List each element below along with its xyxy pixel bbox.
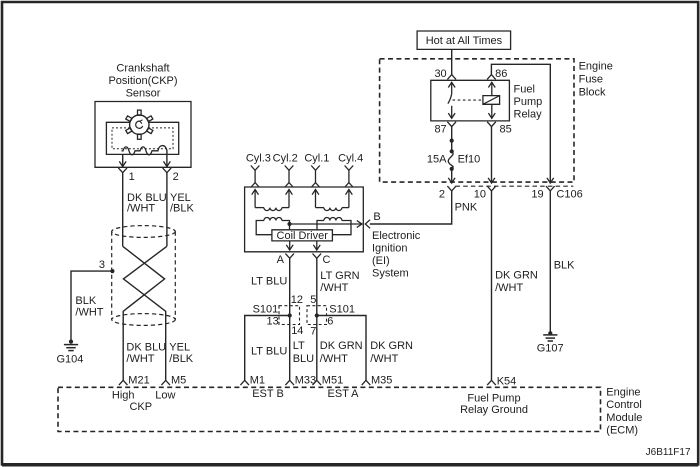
label YEL/BLK lower	[169, 341, 194, 365]
wire 86 loop	[491, 64, 553, 183]
svg-text:Cyl.1: Cyl.1	[304, 152, 329, 164]
svg-text:5: 5	[310, 294, 316, 306]
svg-text:Coil Driver: Coil Driver	[277, 230, 329, 242]
wire fuse to C106	[448, 169, 455, 183]
CKP sensor outer box	[95, 102, 191, 168]
wire hot to pin 30	[451, 49, 453, 74]
svg-text:/WHT: /WHT	[495, 282, 523, 294]
terminal 3 drain wire	[71, 259, 112, 342]
svg-text:Module: Module	[606, 412, 642, 424]
label Electronic Ignition (EI) System	[372, 230, 421, 280]
node S101 splice C	[315, 313, 319, 317]
shield cylinder bottom ellipse	[112, 314, 176, 326]
ground G107	[537, 331, 564, 355]
svg-text:2: 2	[173, 171, 179, 183]
svg-text:M21: M21	[128, 375, 149, 387]
svg-text:2: 2	[439, 188, 445, 200]
svg-text:/WHT: /WHT	[320, 353, 348, 365]
relay coil link	[453, 99, 483, 101]
svg-text:3: 3	[99, 259, 105, 271]
Engine Fuse Block box	[380, 59, 574, 182]
relay terminal 30	[434, 68, 456, 80]
secondary arrow at x=348.9	[346, 190, 353, 208]
svg-text:(ECM): (ECM)	[606, 424, 638, 436]
relay coil	[483, 82, 500, 118]
svg-text:/WHT: /WHT	[126, 353, 154, 365]
svg-text:Engine: Engine	[606, 387, 640, 399]
svg-text:High: High	[112, 389, 135, 401]
svg-text:PNK: PNK	[455, 202, 478, 214]
svg-text:15A: 15A	[427, 154, 447, 166]
svg-text:System: System	[372, 267, 409, 279]
wire LT BLU (A)	[289, 258, 291, 380]
wire to B arrow	[290, 221, 363, 228]
label DK BLU/WHT lower	[126, 341, 166, 365]
svg-text:BLK: BLK	[75, 295, 96, 307]
svg-text:Relay: Relay	[514, 108, 543, 120]
twisted pair wire B	[123, 246, 166, 380]
node primary junction	[287, 222, 291, 230]
label Engine Fuse Block	[579, 61, 613, 99]
svg-text:13: 13	[267, 316, 279, 328]
svg-text:10: 10	[474, 189, 486, 201]
wire S101 to M35	[317, 316, 366, 381]
label Cyl.1	[304, 152, 329, 164]
wire PNK	[370, 191, 452, 224]
label CKP	[129, 401, 152, 413]
relay terminal 87	[434, 122, 456, 136]
svg-text:/BLK: /BLK	[170, 203, 195, 215]
wire YEL/BLK (CKP 2)	[166, 173, 168, 247]
pin 14	[291, 325, 303, 337]
terminal 19 C106	[531, 186, 582, 200]
pin 12	[291, 294, 303, 306]
label LT BLU	[251, 275, 287, 287]
svg-text:DK GRN: DK GRN	[370, 340, 413, 352]
svg-text:Fuel Pump: Fuel Pump	[467, 392, 520, 404]
svg-text:Sensor: Sensor	[126, 87, 161, 99]
ground G104	[57, 340, 84, 366]
pin 6	[327, 316, 333, 328]
label Crankshaft Position (CKP) Sensor	[108, 62, 177, 99]
label Fuel Pump Relay	[514, 84, 543, 121]
node splice to shield	[110, 269, 114, 273]
label S101 left	[253, 304, 279, 316]
svg-text:86: 86	[495, 68, 507, 80]
svg-text:/WHT: /WHT	[370, 353, 398, 365]
svg-text:Hot at All Times: Hot at All Times	[426, 35, 503, 47]
svg-text:/BLK: /BLK	[169, 353, 194, 365]
terminal A	[277, 254, 294, 266]
terminal M33	[285, 375, 316, 387]
svg-text:A: A	[277, 254, 285, 266]
svg-text:Crankshaft: Crankshaft	[116, 62, 169, 74]
svg-text:EST B: EST B	[252, 388, 284, 400]
svg-text:G104: G104	[57, 353, 84, 365]
splice S101 right box	[307, 306, 327, 325]
svg-text:30: 30	[434, 68, 446, 80]
label DK GRN/WHT (M35)	[370, 340, 413, 365]
svg-text:Cyl.3: Cyl.3	[246, 152, 271, 164]
svg-text:14: 14	[291, 325, 303, 337]
svg-text:CKP: CKP	[129, 401, 152, 413]
svg-text:C: C	[323, 254, 331, 266]
Coil Driver box	[272, 230, 333, 242]
rotation arrow inside gear	[136, 120, 143, 129]
EI pin C arrow	[313, 241, 320, 250]
CKP reluctor wheel (gear)	[126, 110, 153, 139]
svg-text:BLK: BLK	[554, 260, 575, 272]
ignition coil 1 primary	[256, 218, 289, 235]
wire DK BLU/WHT (CKP 1)	[122, 173, 124, 247]
CKP pin 1 arrow	[119, 154, 126, 166]
svg-text:Control: Control	[606, 399, 641, 411]
Cyl terminal at x=255.1	[251, 166, 260, 188]
svg-text:/WHT: /WHT	[75, 307, 103, 319]
svg-text:19: 19	[531, 188, 543, 200]
wire DK GRN/WHT (relay ground)	[491, 191, 493, 380]
svg-text:G107: G107	[537, 343, 564, 355]
label Fuel Pump Relay Ground	[460, 392, 528, 416]
svg-text:/WHT: /WHT	[127, 203, 155, 215]
CKP pickup coil	[122, 146, 167, 155]
svg-text:Low: Low	[155, 389, 175, 401]
fuse Ef10 15A	[427, 149, 480, 171]
svg-text:BLU: BLU	[293, 353, 314, 365]
svg-text:M35: M35	[371, 375, 392, 387]
connector C106 dashed line	[456, 185, 574, 187]
terminal 1	[118, 168, 134, 183]
terminal M21	[119, 375, 150, 387]
twisted pair wire A	[123, 246, 165, 380]
svg-text:Cyl.2: Cyl.2	[273, 152, 298, 164]
ignition coil 1 secondary	[255, 208, 289, 211]
CKP sensor inner box	[106, 122, 178, 154]
svg-text:7: 7	[310, 326, 316, 338]
svg-text:J6B11F17: J6B11F17	[646, 447, 691, 458]
pin 13	[267, 316, 279, 328]
svg-text:Pump: Pump	[514, 96, 543, 108]
label High	[112, 389, 135, 401]
Cyl terminal at x=348.9	[345, 166, 354, 188]
svg-text:M5: M5	[171, 375, 186, 387]
svg-text:(EI): (EI)	[372, 255, 390, 267]
svg-text:K54: K54	[497, 376, 517, 388]
svg-text:M1: M1	[250, 375, 265, 387]
relay terminal 85	[487, 122, 512, 136]
relay terminal 86	[487, 68, 507, 80]
Engine Control Module box	[58, 387, 601, 431]
svg-text:YEL: YEL	[169, 341, 190, 353]
node S101 splice A	[288, 313, 292, 317]
svg-text:DK BLU: DK BLU	[126, 341, 166, 353]
label EST B	[252, 388, 284, 400]
CKP sensor dotted box	[112, 128, 173, 149]
svg-text:1: 1	[129, 171, 135, 183]
ignition coil 2 secondary	[316, 208, 349, 211]
label LT BLU (M33)	[293, 340, 314, 365]
svg-text:LT BLU: LT BLU	[251, 346, 287, 358]
svg-text:Electronic: Electronic	[372, 230, 421, 242]
label PNK	[455, 202, 478, 214]
svg-text:B: B	[373, 211, 380, 223]
svg-text:Ef10: Ef10	[458, 154, 481, 166]
svg-text:C106: C106	[556, 188, 582, 200]
ignition coil 2 primary	[317, 218, 351, 235]
svg-text:S101: S101	[253, 304, 279, 316]
label S101 right	[329, 304, 355, 316]
label Cyl.3	[246, 152, 271, 164]
Cyl terminal at x=315.5	[311, 166, 320, 188]
wire 85 to C106	[488, 127, 495, 183]
wire BLK	[549, 191, 551, 333]
Cyl terminal at x=289.0	[285, 166, 294, 188]
svg-text:Engine: Engine	[579, 61, 613, 73]
terminal B	[365, 211, 380, 228]
wire LT GRN/WHT (C)	[316, 258, 318, 380]
svg-text:/WHT: /WHT	[320, 282, 348, 294]
terminal C	[313, 254, 331, 266]
label Cyl.2	[273, 152, 298, 164]
label DK BLU/WHT	[127, 192, 167, 214]
label YEL/BLK	[170, 192, 195, 214]
terminal 2 C106	[439, 186, 456, 200]
svg-text:6: 6	[327, 316, 333, 328]
svg-text:Fuel: Fuel	[514, 84, 535, 96]
terminal 10 C106	[474, 186, 496, 200]
label LT GRN/WHT	[320, 270, 359, 294]
svg-text:Cyl.4: Cyl.4	[338, 152, 363, 164]
secondary arrow at x=289.0	[286, 190, 293, 208]
svg-text:DK GRN: DK GRN	[320, 340, 363, 352]
label LT BLU (M1)	[251, 346, 287, 358]
label BLK	[554, 260, 575, 272]
label DK GRN/WHT (M51)	[320, 340, 363, 365]
label BLK/WHT	[75, 295, 103, 319]
svg-text:Ignition: Ignition	[372, 242, 407, 254]
label EST A	[328, 388, 360, 400]
node fuse top	[450, 139, 454, 143]
terminal M51	[313, 375, 344, 387]
label Cyl.4	[338, 152, 363, 164]
relay switch contact	[448, 82, 455, 118]
label DK GRN/WHT right	[495, 269, 538, 294]
svg-text:EST A: EST A	[328, 388, 360, 400]
svg-text:Fuse: Fuse	[579, 74, 603, 86]
terminal M5	[161, 375, 186, 387]
terminal K54	[487, 376, 516, 388]
Hot at All Times box	[417, 31, 511, 49]
secondary arrow at x=255.1	[252, 190, 259, 208]
svg-text:Position(CKP): Position(CKP)	[108, 75, 177, 87]
shield cylinder sides	[112, 232, 176, 320]
terminal 2	[163, 168, 179, 183]
label Engine Control Module (ECM)	[606, 387, 642, 437]
label J6B11F17	[646, 447, 691, 458]
splice S101 left box	[279, 306, 300, 325]
svg-text:LT: LT	[293, 340, 305, 352]
svg-text:Relay Ground: Relay Ground	[460, 404, 528, 416]
svg-text:DK GRN: DK GRN	[495, 269, 538, 281]
svg-text:12: 12	[291, 294, 303, 306]
terminal M35	[362, 375, 393, 387]
wire 87 to fuse	[451, 127, 453, 152]
secondary arrow at x=315.5	[312, 190, 319, 208]
svg-text:85: 85	[500, 123, 512, 135]
pin 7	[310, 326, 316, 338]
svg-text:87: 87	[434, 123, 446, 135]
label Low	[155, 389, 175, 401]
EI system box	[245, 187, 364, 252]
shield cylinder top ellipse	[112, 226, 176, 238]
svg-text:LT GRN: LT GRN	[320, 270, 359, 282]
pin 5	[310, 294, 316, 306]
CKP pin 2 arrow	[164, 150, 171, 167]
wire S101 to M1	[245, 316, 290, 381]
svg-text:S101: S101	[329, 304, 355, 316]
svg-text:M51: M51	[322, 375, 343, 387]
terminal M1	[240, 375, 265, 387]
svg-text:Block: Block	[579, 86, 606, 98]
Fuel Pump Relay box	[431, 80, 510, 121]
EI pin A arrow	[286, 241, 293, 250]
svg-text:LT BLU: LT BLU	[251, 275, 287, 287]
